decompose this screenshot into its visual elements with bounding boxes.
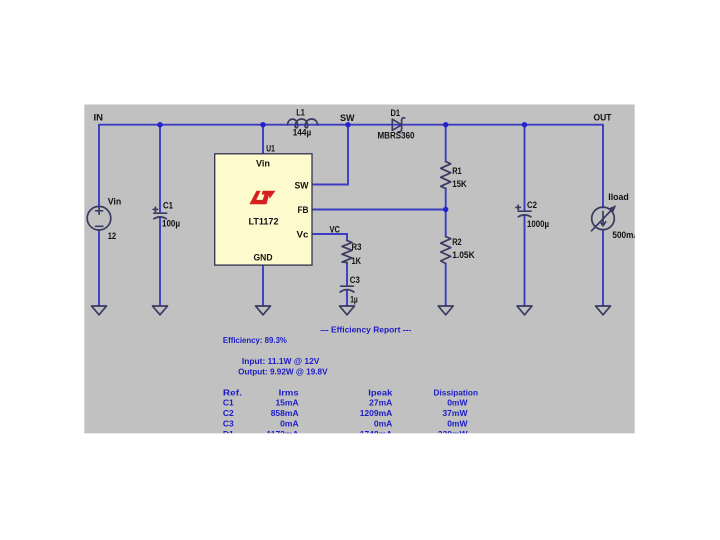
wire OUT branch down to Iload	[602, 125, 604, 208]
inductor L1	[288, 119, 318, 128]
svg-text:Input: 11.1W @ 12V: Input: 11.1W @ 12V	[242, 356, 320, 366]
resistor R1	[441, 162, 451, 189]
wire Iload to ground	[602, 230, 604, 307]
svg-text:37mW: 37mW	[442, 408, 468, 418]
wire C1 branch lower	[159, 218, 161, 306]
svg-text:0mA: 0mA	[374, 419, 392, 429]
wire R1 top stub	[445, 125, 447, 162]
node FB junction	[443, 207, 448, 212]
svg-text:--- Efficiency Report ---: --- Efficiency Report ---	[320, 325, 411, 335]
node junction U1 Vin/rail	[260, 122, 265, 127]
wire U1 GND pin to ground	[262, 266, 264, 307]
ground symbol at U1 GND	[256, 306, 271, 315]
svg-text:Ref.: Ref.	[223, 387, 242, 397]
svg-text:C1: C1	[223, 398, 234, 408]
voltage source minus sign	[96, 225, 103, 227]
svg-text:Dissipation: Dissipation	[434, 387, 479, 397]
svg-text:Vin: Vin	[256, 159, 270, 169]
ground symbol at Iload	[596, 306, 611, 315]
svg-text:VC: VC	[330, 224, 341, 234]
voltage source plus sign	[96, 207, 103, 214]
svg-text:15mA: 15mA	[275, 398, 298, 408]
svg-text:Ipeak: Ipeak	[368, 387, 392, 397]
svg-text:LT1172: LT1172	[249, 217, 279, 227]
ground symbol at C1	[153, 306, 168, 315]
svg-text:1748mA: 1748mA	[360, 429, 393, 439]
current source load diagonal arrow	[592, 205, 617, 231]
svg-text:0mA: 0mA	[280, 419, 298, 429]
svg-text:C3: C3	[223, 419, 234, 429]
svg-text:OUT: OUT	[594, 113, 612, 123]
wire VC net from U1 Vc pin to R3	[312, 234, 347, 241]
svg-text:1209mA: 1209mA	[360, 408, 393, 418]
ground symbol at V1	[92, 306, 107, 315]
svg-text:1.05K: 1.05K	[452, 250, 475, 260]
svg-text:1µ: 1µ	[350, 295, 358, 305]
svg-text:12: 12	[108, 231, 117, 241]
svg-text:27mA: 27mA	[369, 398, 392, 408]
current source Iload circle	[592, 207, 615, 230]
node junction R1/rail	[443, 122, 448, 127]
svg-text:D1: D1	[223, 429, 234, 439]
node junction C1/rail	[157, 122, 162, 127]
wire FB net from U1 to divider	[312, 209, 446, 211]
svg-text:Vin: Vin	[108, 197, 122, 207]
ground symbol at C3	[340, 306, 355, 315]
svg-text:C2: C2	[223, 408, 234, 418]
svg-text:Iload: Iload	[608, 192, 629, 202]
svg-text:Output: 9.92W @ 19.8V: Output: 9.92W @ 19.8V	[238, 367, 328, 377]
svg-text:U1: U1	[266, 144, 275, 154]
svg-text:D1: D1	[391, 108, 401, 118]
wire C1 branch upper	[159, 125, 161, 213]
wire R1 bottom to R2 top through FB node	[445, 189, 447, 237]
svg-text:1000µ: 1000µ	[527, 219, 549, 229]
svg-text:Efficiency: 89.3%: Efficiency: 89.3%	[223, 335, 287, 345]
svg-text:IN: IN	[94, 113, 104, 123]
node junction C2/rail	[522, 122, 527, 127]
capacitor C3 symbol	[340, 286, 354, 292]
svg-text:0mW: 0mW	[447, 398, 468, 408]
svg-text:R3: R3	[352, 242, 362, 252]
wire left branch down from IN to Vin source	[98, 125, 100, 207]
wire SW net from rail to U1 SW pin	[312, 125, 348, 185]
svg-text:Vc: Vc	[297, 229, 309, 239]
svg-text:R2: R2	[452, 237, 462, 247]
U1 logo LT red	[249, 191, 275, 205]
wire Vin source to ground	[98, 230, 100, 306]
wire C2 branch lower	[524, 216, 526, 306]
table row C3	[223, 419, 469, 429]
svg-text:MBRS360: MBRS360	[378, 131, 415, 141]
svg-text:330mW: 330mW	[438, 429, 469, 439]
op-amp U1 body LT1172	[215, 154, 312, 265]
svg-text:500mA: 500mA	[612, 230, 639, 240]
table row D1 clipped	[223, 429, 469, 439]
svg-text:FB: FB	[298, 205, 309, 215]
svg-text:15K: 15K	[452, 179, 467, 189]
svg-text:R1: R1	[452, 166, 462, 176]
svg-text:C2: C2	[527, 200, 537, 210]
svg-text:L1: L1	[296, 108, 305, 118]
schematic canvas background	[84, 105, 634, 434]
current source internal arrow	[600, 212, 605, 226]
wire R2 bottom to ground	[445, 264, 447, 307]
ground symbol at C2	[517, 306, 532, 315]
svg-text:Irms: Irms	[279, 387, 299, 397]
capacitor C1 symbol	[153, 207, 166, 219]
svg-text:858mA: 858mA	[271, 408, 299, 418]
svg-text:C3: C3	[350, 275, 360, 285]
table row C2	[223, 408, 469, 418]
svg-text:0mW: 0mW	[447, 419, 468, 429]
wire R3 bottom to C3	[346, 263, 348, 287]
svg-text:C1: C1	[163, 201, 173, 211]
wire C2 branch upper	[524, 125, 526, 211]
resistor R2	[441, 237, 451, 264]
svg-text:SW: SW	[295, 180, 309, 190]
svg-text:1173mA: 1173mA	[266, 429, 298, 439]
resistor R3	[342, 241, 352, 263]
svg-text:1K: 1K	[352, 256, 362, 266]
svg-text:100µ: 100µ	[162, 219, 180, 229]
ground symbol at R2	[438, 306, 453, 315]
node SW junction on rail	[345, 122, 350, 127]
svg-text:GND: GND	[254, 252, 273, 262]
capacitor C2 symbol	[516, 205, 531, 217]
voltage source V1 circle	[87, 206, 111, 230]
table row C1	[223, 398, 469, 408]
wire U1 Vin pin stub	[262, 125, 264, 155]
wire C3 bottom to ground	[346, 291, 348, 307]
svg-text:144µ: 144µ	[293, 128, 312, 138]
svg-text:SW: SW	[340, 113, 355, 123]
diode D1 MBRS360	[392, 118, 404, 132]
wire top rail IN to OUT	[99, 124, 603, 126]
